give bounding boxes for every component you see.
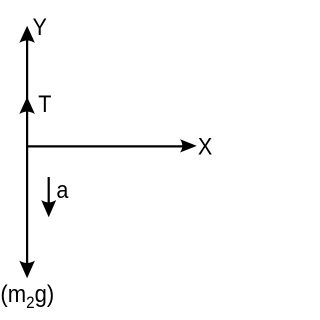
- svg-text:T: T: [38, 90, 51, 117]
- svg-text:Y: Y: [33, 13, 47, 40]
- svg-text:a: a: [56, 176, 68, 203]
- svg-text:X: X: [198, 132, 212, 159]
